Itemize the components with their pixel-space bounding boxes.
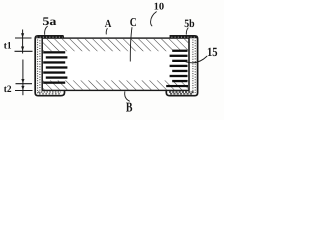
svg-text:A: A [105, 18, 112, 30]
svg-text:t1: t1 [4, 40, 12, 51]
svg-text:10: 10 [154, 2, 165, 13]
svg-text:C: C [130, 15, 137, 29]
hatch band bottom (cover layer B) [43, 80, 188, 90]
stipple texture left cap [37, 40, 39, 94]
svg-text:5a: 5a [42, 15, 56, 28]
internal electrodes 15 left stack [43, 51, 67, 84]
internal electrodes 15 right stack [166, 50, 188, 88]
svg-text:5b: 5b [184, 18, 194, 30]
dimension t2 [15, 60, 33, 96]
svg-text:t2: t2 [4, 84, 12, 95]
terminal electrode 5a (left cap) [35, 36, 64, 96]
terminal electrode 5b (right cap) [166, 36, 197, 96]
body 10 outline [42, 38, 189, 90]
top lip thick bands [36, 36, 64, 39]
hatch band top (cover layer A) [43, 39, 188, 51]
svg-text:B: B [126, 100, 133, 115]
dimension t1 [15, 30, 33, 54]
svg-text:15: 15 [207, 45, 218, 59]
stipple texture right cap [192, 40, 194, 94]
